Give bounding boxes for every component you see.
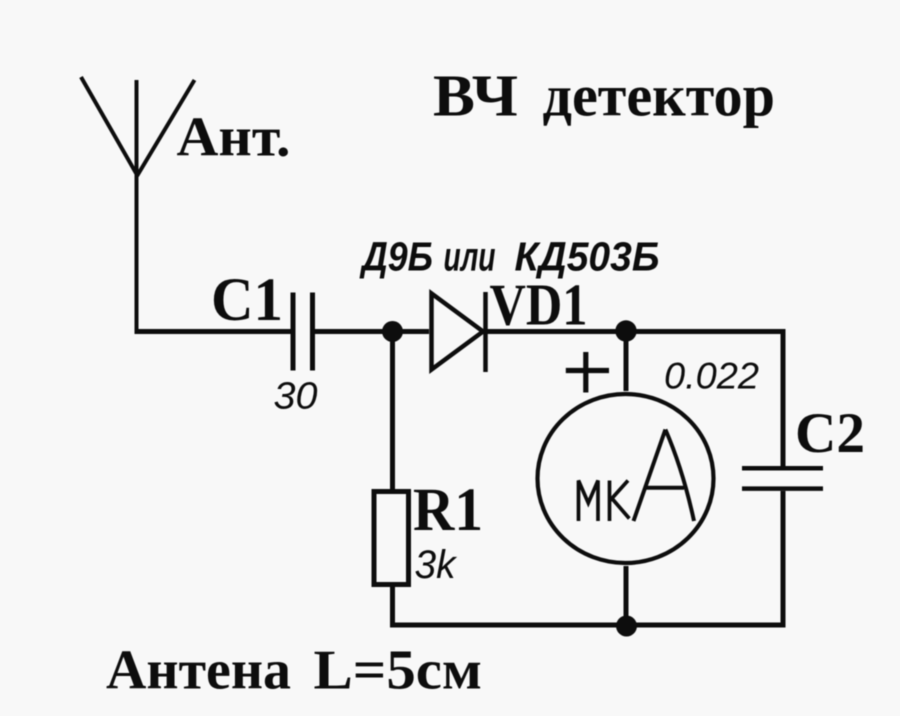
svg-text:30: 30 xyxy=(274,376,318,418)
svg-text:КД503Б: КД503Б xyxy=(515,234,660,280)
svg-text:VD1: VD1 xyxy=(490,272,588,338)
svg-text:С2: С2 xyxy=(795,402,865,465)
svg-text:Антена: Антена xyxy=(106,640,291,702)
svg-text:или: или xyxy=(444,234,496,280)
svg-text:0.022: 0.022 xyxy=(664,356,759,397)
svg-text:Д9Б: Д9Б xyxy=(359,234,433,280)
svg-text:3k: 3k xyxy=(415,543,458,587)
svg-text:детектор: детектор xyxy=(543,63,776,129)
svg-text:ВЧ: ВЧ xyxy=(433,63,518,129)
svg-text:С1: С1 xyxy=(211,267,283,334)
svg-text:Ант.: Ант. xyxy=(177,107,291,169)
svg-text:L=5см: L=5см xyxy=(314,640,483,702)
svg-text:R1: R1 xyxy=(413,477,483,544)
